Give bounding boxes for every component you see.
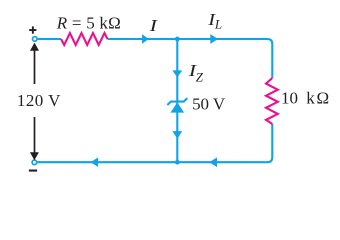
svg-text:50 V: 50 V xyxy=(192,95,226,114)
svg-text:10: 10 xyxy=(281,89,298,108)
svg-text:L: L xyxy=(214,16,222,31)
svg-text:R = 5 kΩ: R = 5 kΩ xyxy=(56,14,121,33)
svg-text:Z: Z xyxy=(196,70,204,85)
svg-text:120 V: 120 V xyxy=(17,91,61,110)
svg-text:kΩ: kΩ xyxy=(306,89,329,108)
